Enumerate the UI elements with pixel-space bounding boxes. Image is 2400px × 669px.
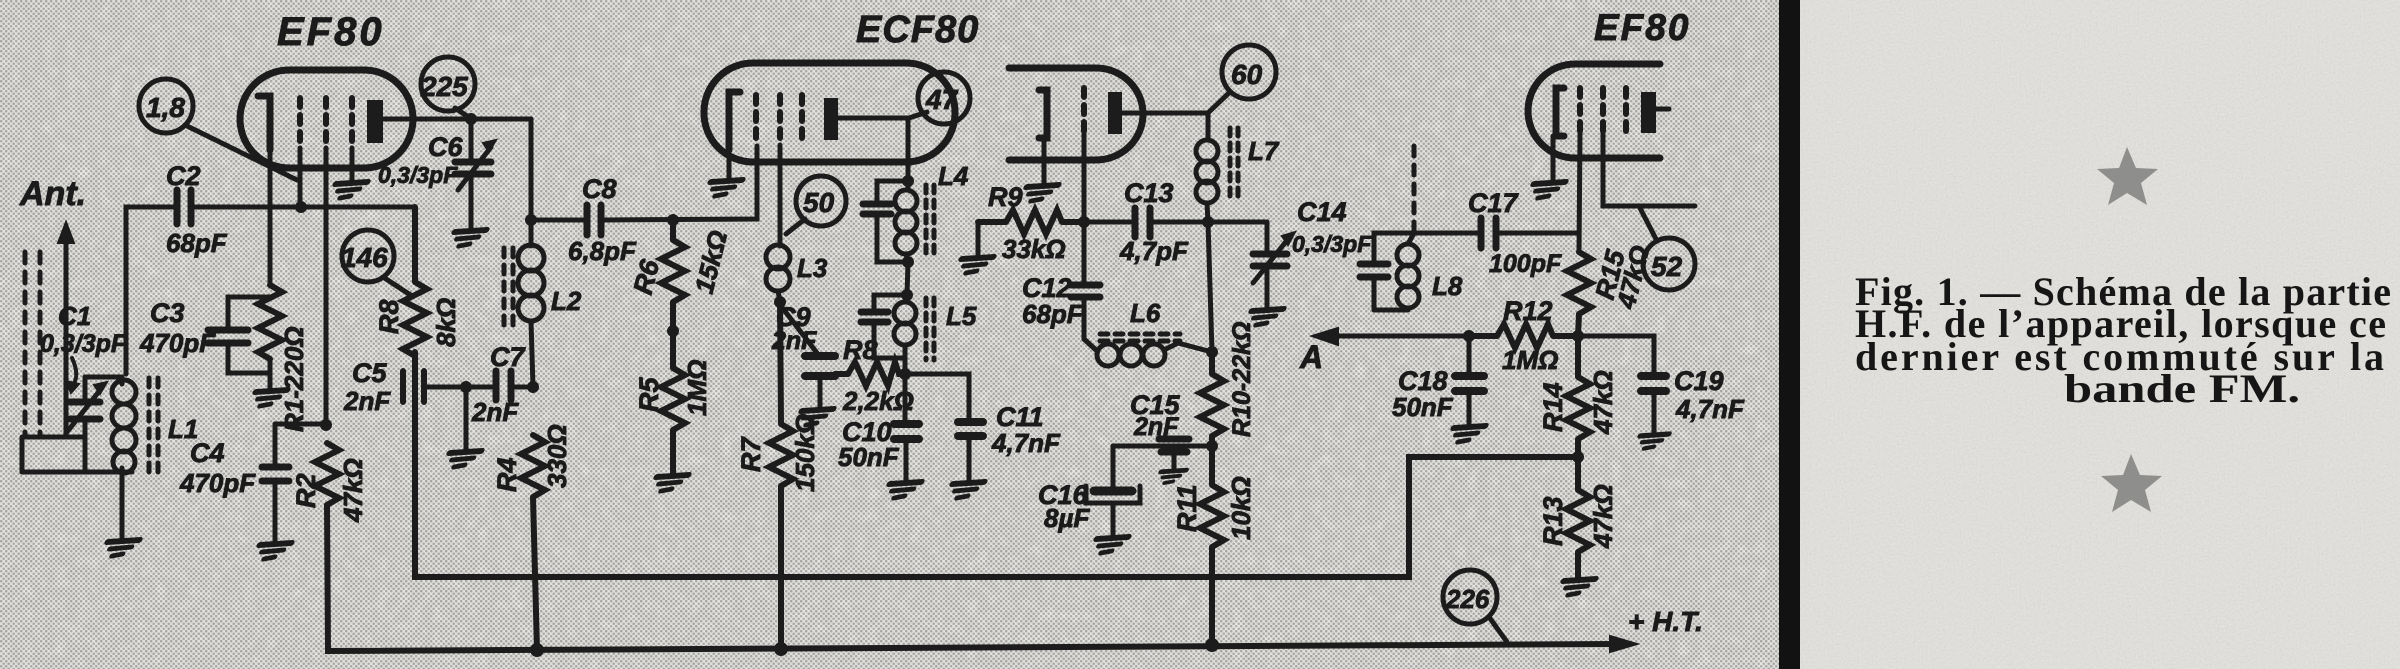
svg-text:68pF: 68pF (1022, 299, 1084, 329)
C18 labels (1392, 366, 1454, 422)
node L6 R10 (1206, 346, 1218, 358)
svg-text:C4: C4 (190, 438, 225, 468)
R12 labels (1502, 296, 1558, 375)
R5 labels (634, 360, 712, 416)
tube V3 grid 3 (1623, 88, 1629, 133)
resistor R2 (315, 443, 339, 505)
capacitor C4 (262, 467, 289, 481)
wire C7 to L2 branch (513, 385, 533, 390)
tube V3 cathode (1556, 88, 1564, 136)
antenna dashed lead 2 (38, 252, 43, 437)
tank L4 capacitor branch (877, 181, 908, 262)
terminal circle 50 (796, 176, 846, 226)
node C18 R12 (1463, 330, 1475, 342)
tube V2 coil pin (778, 145, 783, 246)
wire C5 to C7 (427, 385, 494, 390)
ground under L1 (102, 540, 139, 556)
node R11 on HT rail (1205, 638, 1219, 652)
resistor R1 (258, 285, 282, 359)
R15 labels (1590, 242, 1656, 312)
ground under C11 (947, 482, 984, 498)
ground under R9 (956, 257, 993, 273)
capacitor C18 wires (1467, 336, 1472, 424)
capacitor C8 (587, 205, 601, 235)
capacitor C14 wire (1265, 222, 1270, 307)
node R6 top (667, 214, 679, 226)
ground under C14 (1246, 309, 1283, 325)
svg-text:Ant.: Ant. (19, 175, 86, 213)
resistor R8 (403, 207, 427, 577)
svg-text:R10-22kΩ: R10-22kΩ (1228, 322, 1256, 437)
R4 labels (492, 424, 572, 492)
svg-text:2nF: 2nF (471, 397, 519, 427)
svg-text:A: A (1299, 339, 1323, 375)
tube V2b grid (1081, 88, 1087, 132)
tube V2 grid 3 (799, 95, 805, 145)
inductor L2 (518, 245, 544, 387)
C4 labels (179, 438, 256, 498)
resistor R14 (1566, 336, 1590, 457)
tube V1 grid 2 (323, 98, 329, 148)
wire AGC upper rail (415, 352, 1578, 577)
resistor R9 (978, 210, 1084, 234)
R6 labels (628, 227, 734, 297)
svg-text:50nF: 50nF (1392, 392, 1454, 422)
tube V2b grid pin (1082, 132, 1087, 223)
svg-text:4,7nF: 4,7nF (1675, 394, 1745, 424)
C3 labels (139, 298, 216, 358)
C7 labels (471, 342, 526, 427)
svg-text:1MΩ: 1MΩ (682, 360, 712, 416)
resistor R12 (1469, 324, 1578, 348)
svg-text:C2: C2 (166, 161, 201, 191)
svg-text:C13: C13 (1124, 178, 1174, 208)
svg-text:R2: R2 (291, 473, 321, 508)
capacitor C13 (1135, 208, 1150, 237)
svg-text:L6: L6 (1130, 298, 1161, 328)
resistor R4 (521, 435, 545, 650)
pointer circle 60 to anode wire (1209, 92, 1230, 112)
capacitor C10 wires (905, 374, 906, 480)
schematic paper background (0, 0, 1779, 669)
svg-text:470pF: 470pF (179, 468, 256, 498)
wire C9 to ground (818, 380, 823, 407)
node R14 R13 AGC (1572, 451, 1584, 463)
tank L5 capacitor (861, 312, 888, 322)
svg-text:225: 225 (420, 71, 468, 102)
ground under C10 (884, 482, 921, 498)
inductor L8 (1397, 233, 1419, 308)
resistor R8 2,2k (835, 362, 903, 386)
svg-text:+ H.T.: + H.T. (1628, 606, 1703, 637)
C14 labels (1292, 197, 1372, 257)
capacitor C9 (805, 356, 835, 376)
L7 core (1230, 128, 1238, 200)
tube V1 grid1 pin (298, 148, 303, 207)
L4 core (926, 185, 934, 258)
resistor R15 (1567, 252, 1591, 336)
svg-text:1,8: 1,8 (146, 92, 185, 123)
pointer circle 225 to anode wire (455, 108, 470, 118)
svg-text:R7: R7 (736, 436, 766, 472)
node grid pentode (1078, 216, 1090, 228)
svg-text:L8: L8 (1432, 271, 1463, 301)
tube V1 cathode (258, 96, 270, 150)
tank L8 dashed lead (1412, 146, 1417, 230)
R2 labels (291, 458, 368, 523)
svg-text:2nF: 2nF (343, 386, 391, 416)
tube V3 anode (1641, 92, 1656, 133)
inductor L5 (894, 295, 916, 358)
node R12 R15 R14 (1572, 330, 1584, 342)
inductor L3 (766, 245, 790, 301)
svg-text:R4: R4 (492, 457, 522, 492)
wire R1 to ground (268, 359, 273, 385)
C8 labels (568, 174, 637, 266)
pointer circle 52 to takeoff (1640, 208, 1657, 241)
tank L8 capacitor (1360, 264, 1388, 277)
node L3 bottom (774, 296, 786, 308)
tank L4 capacitor (863, 204, 891, 214)
tube V3 grid 1 (1577, 88, 1583, 133)
tube V2b cathode pin to ground (1042, 138, 1047, 183)
tube V2 ECF80 pentode envelope (1009, 68, 1143, 160)
tube V1 anode (367, 100, 383, 143)
wire L1 to ground (120, 472, 125, 538)
capacitor C2 (177, 190, 191, 224)
wire L3 to C9 (781, 306, 817, 353)
R13 labels (1538, 484, 1618, 549)
node R6 R5 (667, 325, 679, 337)
wire node to C11 (905, 374, 969, 420)
antenna arrow (58, 222, 74, 437)
capacitor C14 trimmer (1253, 232, 1295, 283)
svg-text:0,3/3pF: 0,3/3pF (1292, 231, 1372, 257)
wire anode to L4 (906, 118, 911, 181)
capacitor C18 (1455, 376, 1484, 391)
svg-text:R14: R14 (1538, 382, 1568, 432)
node grid1 tube1 (295, 201, 307, 213)
ground under R1 C3 (250, 390, 287, 406)
svg-text:L4: L4 (938, 161, 969, 191)
svg-text:C1: C1 (58, 301, 91, 331)
tube V1 EF80 envelope (240, 70, 413, 168)
wire L8 to C17 (1414, 231, 1479, 236)
svg-text:47kΩ: 47kΩ (1588, 484, 1618, 549)
L1 core (149, 378, 158, 472)
terminal circle 225 (420, 57, 475, 111)
svg-text:0,3/3pF: 0,3/3pF (40, 330, 127, 358)
C2 labels (166, 161, 228, 258)
pointer circle 226 to HT rail (1489, 617, 1507, 642)
capacitor C16 wires (1111, 446, 1116, 535)
capacitor C5 (403, 371, 424, 402)
svg-text:146: 146 (341, 242, 388, 273)
C17 labels (1468, 188, 1562, 278)
node R7 on HT rail (774, 642, 788, 656)
svg-text:R1-220Ω: R1-220Ω (279, 326, 309, 432)
terminal circle 146 (341, 230, 394, 282)
svg-text:C5: C5 (352, 358, 387, 388)
terminal circle 47 (918, 72, 970, 124)
tube V3 EF80 envelope (1528, 64, 1660, 158)
wire antenna bottom (22, 437, 85, 472)
tube V1 grid 1 (297, 98, 303, 148)
tank loop wires (22, 377, 132, 472)
svg-text:470pF: 470pF (139, 328, 216, 358)
ground under C9 (796, 409, 833, 425)
star ornament bottom (2101, 454, 2162, 512)
capacitor C17 (1481, 218, 1496, 248)
inductor L7 (1196, 140, 1218, 222)
svg-text:C17: C17 (1468, 188, 1520, 218)
node C5 C7 ground junction (460, 381, 472, 393)
tube V2b anode wire (1122, 113, 1208, 140)
capacitor C1 label (40, 301, 127, 358)
svg-text:EF80: EF80 (277, 10, 385, 54)
svg-text:L3: L3 (797, 253, 828, 283)
tube V3 grid 2 (1600, 88, 1606, 133)
node C13 L7 (1202, 216, 1214, 228)
tube V2 cathode (729, 92, 740, 150)
pointer circle 50 to L3 (786, 219, 805, 234)
node L4 top (902, 175, 914, 187)
L6 core (1100, 334, 1180, 341)
C13 labels (1119, 178, 1189, 266)
svg-text:10kΩ: 10kΩ (1226, 476, 1256, 540)
resistor R10 (1200, 352, 1224, 446)
svg-text:50nF: 50nF (838, 442, 900, 472)
svg-text:47kΩ: 47kΩ (338, 458, 368, 523)
wire L4 to L5 (907, 262, 908, 295)
tube V2b anode (1108, 92, 1122, 134)
node L2 R4 C7 (527, 381, 539, 393)
inductor L4 (895, 181, 917, 262)
wire R12 node to C19 (1578, 336, 1654, 374)
svg-text:C19: C19 (1674, 366, 1724, 396)
inductor L1 (112, 377, 136, 473)
C9 labels (771, 302, 817, 355)
ground under V3 cathode (1528, 182, 1565, 198)
resistor R13 (1566, 457, 1590, 577)
svg-text:2nF: 2nF (771, 327, 817, 355)
C10 labels (838, 417, 900, 472)
wire +HT lower rail (327, 505, 1616, 651)
svg-text:47kΩ: 47kΩ (1588, 370, 1618, 435)
caption paper background (1800, 0, 2400, 669)
svg-text:6,8pF: 6,8pF (568, 236, 637, 266)
capacitor C1 pointer arrow (66, 358, 79, 393)
capacitor C6 trimmer (455, 140, 496, 190)
node L5 top (901, 289, 913, 301)
capacitor C7 (496, 371, 511, 400)
tube V2 ECF80 triode envelope (704, 63, 955, 162)
svg-text:4,7pF: 4,7pF (1119, 236, 1189, 266)
R11 labels (1172, 476, 1256, 540)
wire tank to C2 (126, 207, 174, 374)
R8 labels (374, 298, 461, 347)
tube V1 anode wire (383, 117, 531, 122)
L5 core (926, 298, 934, 360)
C16 labels (1038, 480, 1090, 533)
resistor R11 (1200, 446, 1224, 645)
wire L5 to C10 node (903, 358, 908, 374)
svg-text:R13: R13 (1538, 496, 1568, 546)
wire C17 to grid line (1499, 231, 1578, 236)
tube V2 anode wire (838, 116, 908, 121)
svg-text:330Ω: 330Ω (542, 424, 572, 488)
C15 labels (1130, 390, 1181, 441)
pointer from circle 146 to R8 (383, 277, 412, 296)
wire C15 row (1113, 444, 1212, 449)
svg-text:226: 226 (1445, 584, 1490, 614)
wire L2 node to C8 (531, 218, 584, 223)
svg-text:1MΩ: 1MΩ (1502, 345, 1558, 375)
C11 labels (991, 402, 1061, 458)
svg-text:100pF: 100pF (1489, 250, 1562, 278)
capacitor C6 trimmer wires (469, 119, 474, 228)
capacitor C3 wires (228, 297, 270, 388)
terminal circle 1,8 (139, 79, 193, 133)
wire L7 node down to R10 (1208, 222, 1212, 352)
svg-text:4,7nF: 4,7nF (991, 428, 1061, 458)
ground under C15 (1156, 470, 1186, 483)
svg-text:C6: C6 (428, 132, 463, 162)
tube V3 grid1 pin (1579, 133, 1580, 252)
ground under R5 (651, 475, 688, 491)
svg-text:L7: L7 (1248, 136, 1280, 166)
terminal circle 60 (1222, 45, 1276, 99)
svg-text:C8: C8 (582, 174, 617, 204)
wire C11 to ground (967, 438, 972, 480)
wire C19 to ground (1652, 393, 1657, 432)
ground under V2 cathode (705, 180, 742, 196)
svg-text:52: 52 (1651, 251, 1683, 282)
terminal circle 226 (1443, 570, 1497, 624)
ground under C19 (1635, 434, 1669, 448)
C12 labels (1022, 273, 1084, 329)
capacitor C10 (894, 424, 919, 439)
tank L8 loop (1374, 233, 1414, 310)
+H.T. arrowhead (1610, 636, 1637, 652)
resistor R7 (769, 302, 793, 649)
R14 labels (1538, 370, 1618, 435)
ground under C5 C7 node (444, 451, 481, 467)
tube V2 grid (753, 95, 759, 145)
C19 labels (1674, 366, 1745, 424)
svg-text:L2: L2 (551, 286, 582, 316)
node C8 takeoff (525, 214, 537, 226)
ground under tube V1 g3 (330, 182, 367, 198)
node anode C6 (465, 113, 477, 125)
tube V3 anode stub (1656, 107, 1669, 112)
tube V3 cathode pin to ground (1551, 136, 1556, 180)
svg-text:60: 60 (1231, 59, 1263, 90)
svg-text:0,3/3pF: 0,3/3pF (378, 162, 458, 188)
pointer circle 47 to anode wire (909, 112, 927, 118)
C6 labels (378, 132, 463, 188)
svg-text:R9: R9 (988, 182, 1023, 212)
svg-text:8kΩ: 8kΩ (431, 298, 461, 347)
ground under C18 (1448, 426, 1485, 442)
capacitor C1 trimmer (67, 377, 107, 472)
node R8 C10 (899, 368, 911, 380)
ground under V2b cathode (1021, 185, 1058, 201)
star ornament top (2097, 147, 2158, 205)
L2 core (504, 248, 513, 328)
ground under C4 (254, 543, 291, 559)
tube V1 grid3 pin to ground (350, 148, 355, 180)
svg-text:R12: R12 (1503, 296, 1553, 326)
svg-text:R8: R8 (374, 299, 404, 334)
svg-text:R11: R11 (1172, 484, 1202, 532)
pointer from circle 1,8 to grid (185, 125, 297, 180)
node R4 on HT rail (530, 643, 544, 657)
svg-text:50: 50 (803, 187, 835, 218)
node R10 bottom (1206, 440, 1218, 452)
svg-text:C3: C3 (150, 298, 185, 328)
wire junction to ground (464, 387, 469, 449)
tube V2 screen (777, 95, 783, 145)
node screen junction (320, 419, 332, 431)
C5 labels (343, 358, 391, 416)
ground under R13 (1558, 579, 1595, 595)
black divider bar (1779, 0, 1800, 669)
tank L5 capacitor branch (874, 295, 907, 358)
wire anode branch down to L2 (529, 119, 534, 246)
tube V3 g2 pin and takeoff wire (1603, 133, 1695, 206)
R9 labels (988, 182, 1066, 264)
svg-text:2nF: 2nF (1133, 413, 1179, 441)
tube V1 grid 3 (349, 98, 355, 148)
wire C13 row (1084, 220, 1267, 225)
node L4 bottom (902, 256, 914, 268)
svg-text:68pF: 68pF (166, 228, 228, 258)
tube V1 screen grid pin long wire (324, 148, 329, 425)
svg-text:EF80: EF80 (1594, 7, 1690, 48)
tube V2b cathode (1039, 90, 1047, 138)
ground under C6 (449, 230, 486, 246)
resistor R5 (661, 331, 685, 473)
ground under C16 (1091, 537, 1128, 553)
svg-text:ECF80: ECF80 (856, 9, 979, 51)
tube V1 cathode pin down (268, 150, 273, 285)
capacitor C4 wires (273, 424, 278, 541)
tube V2 anode (824, 98, 838, 140)
antenna dashed lead 1 (23, 252, 28, 437)
svg-text:bande FM.: bande FM. (2064, 366, 2300, 411)
resistor R6 (661, 220, 685, 331)
capacitor C11 (958, 422, 983, 436)
capacitor C16 electrolytic (1086, 486, 1140, 503)
svg-text:8µF: 8µF (1044, 503, 1090, 533)
output arrow A (1299, 328, 1469, 375)
svg-text:L5: L5 (946, 301, 977, 331)
inductor L6 (1084, 339, 1212, 366)
svg-text:C14: C14 (1297, 197, 1347, 227)
wire C8 to triode grid (604, 146, 757, 220)
capacitor C12 wires (1082, 222, 1087, 339)
capacitor C19 (1641, 376, 1666, 391)
R8 2,2k labels (842, 335, 914, 416)
svg-text:C7: C7 (490, 342, 526, 372)
svg-text:33kΩ: 33kΩ (1002, 234, 1066, 264)
capacitor C15 (1159, 439, 1189, 468)
main grid wire to tube 1 (194, 205, 415, 210)
caption text (1855, 269, 2391, 411)
wire R9 to ground (976, 222, 981, 255)
svg-text:47: 47 (925, 84, 959, 115)
